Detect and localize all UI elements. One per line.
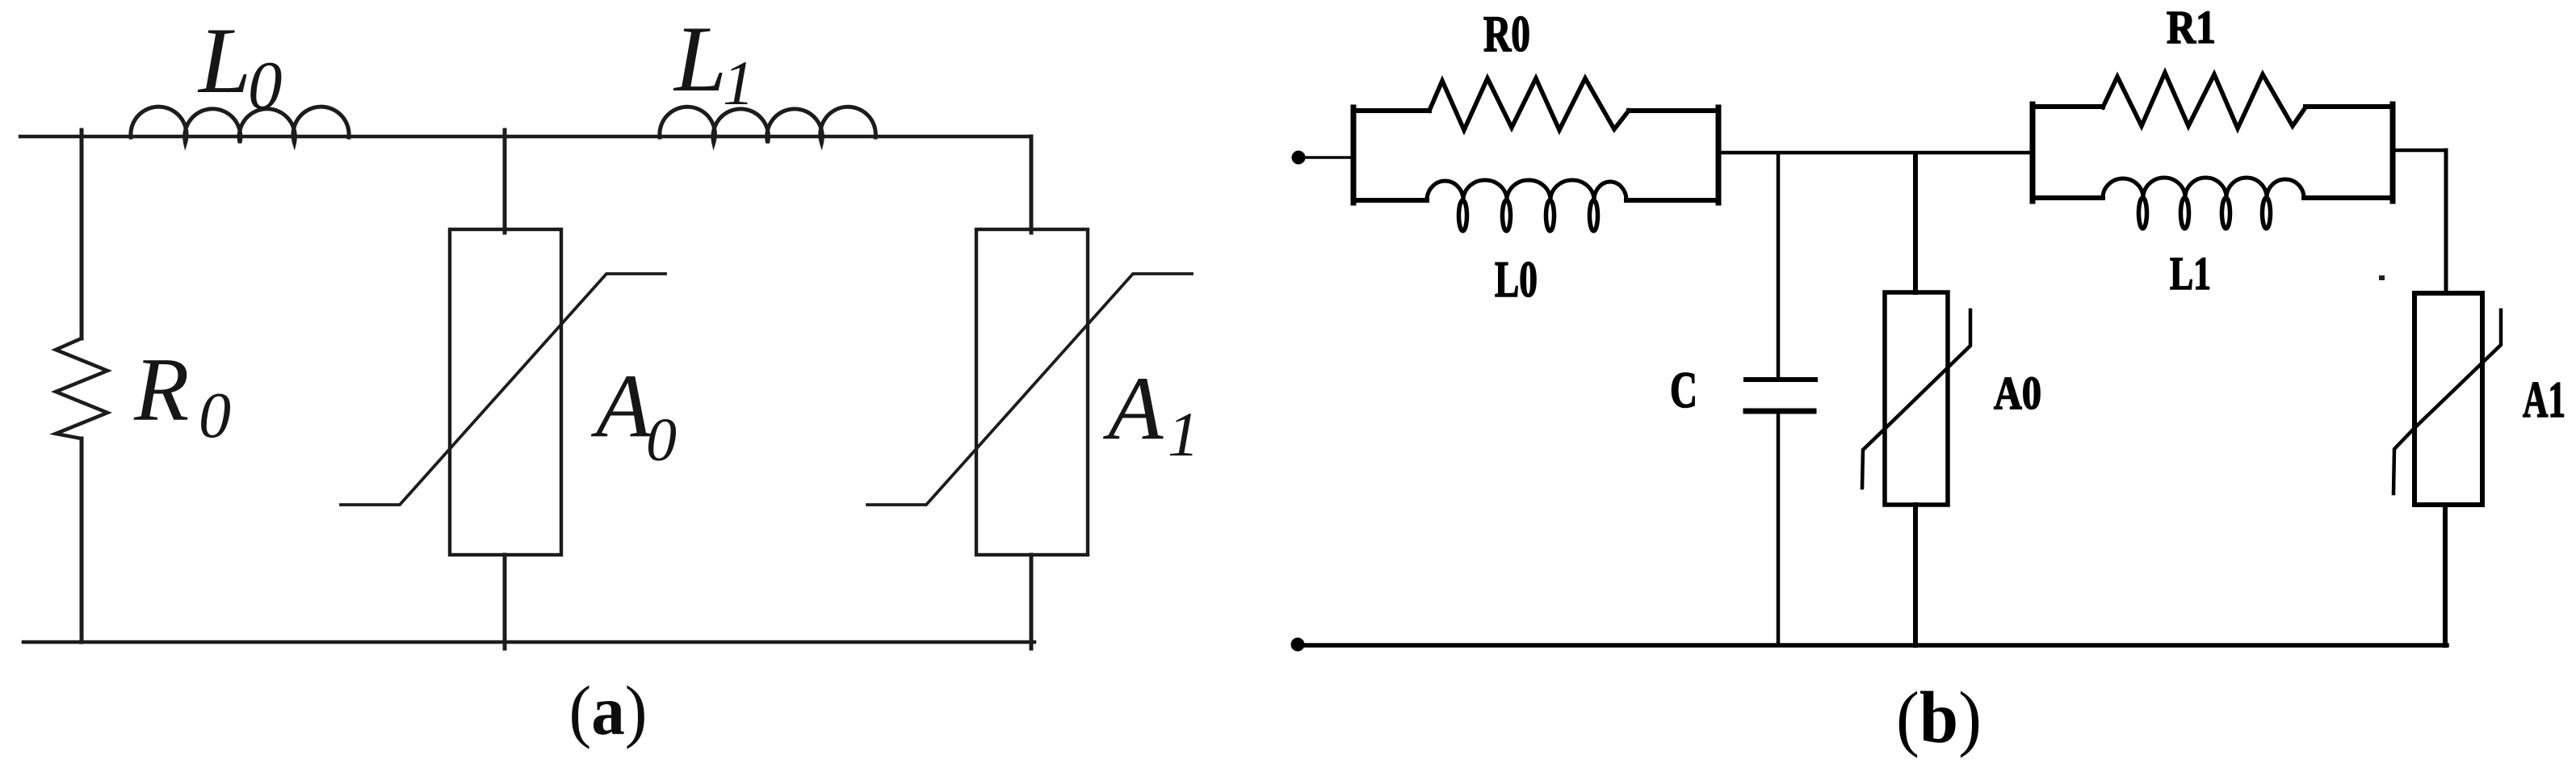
svg-text:A0: A0 — [1994, 367, 2041, 419]
label L1 (a) — [673, 7, 754, 118]
wire top rail (a) — [20, 135, 1031, 138]
svg-text:1: 1 — [723, 48, 754, 118]
svg-text:0: 0 — [248, 48, 283, 124]
varistor A0 body (b) — [1885, 292, 1948, 505]
wire node A horizontal (b) — [1721, 151, 2033, 155]
wire varistor A1 top lead (b) — [2444, 150, 2448, 293]
wire input lead (b) — [1298, 156, 1353, 159]
svg-text:L: L — [197, 9, 251, 113]
svg-text:L0: L0 — [1495, 250, 1538, 308]
svg-text:A1: A1 — [2523, 371, 2566, 428]
R1 L1 parallel block right edge (b) — [2390, 104, 2396, 201]
svg-text:L: L — [673, 7, 727, 111]
label R0 (a) — [133, 340, 231, 451]
varistor A1 body (b) — [2414, 293, 2482, 505]
svg-text:0: 0 — [646, 406, 677, 474]
varistor A0 diagonal stroke (b) — [1862, 310, 1970, 488]
wire varistor A1 bottom lead (b) — [2443, 505, 2448, 645]
R0 L0 parallel block left edge (b) — [1351, 107, 1357, 203]
svg-text:C: C — [1670, 362, 1697, 418]
wire left branch vertical (a) — [80, 130, 84, 642]
svg-text:R1: R1 — [2167, 1, 2216, 53]
wire capacitor C bottom lead (b) — [1777, 414, 1781, 645]
inductor L1 coil loops (b) — [2139, 198, 2271, 229]
resistor R0 (a) — [56, 338, 107, 439]
R1 L1 parallel block left edge (b) — [2030, 104, 2036, 201]
svg-text:1: 1 — [1168, 399, 1199, 469]
varistor A1 diagonal stroke (b) — [2393, 310, 2501, 493]
resistor R0 zigzag (b) — [1429, 78, 1629, 130]
inductor L1 (a) — [660, 107, 876, 143]
label L0 (a) — [197, 9, 283, 124]
varistor A1 diagonal stroke (a) — [867, 274, 1192, 505]
label A0 (a) — [590, 356, 677, 474]
R1 L1 parallel block bottom rail (b) — [2033, 195, 2393, 200]
inductor L0 coil loops (b) — [1459, 200, 1598, 231]
svg-text:A: A — [1102, 359, 1164, 459]
wire varistor A0 bottom lead (a) — [503, 555, 507, 649]
svg-text:(a): (a) — [569, 671, 648, 749]
wire varistor A0 top lead (b) — [1913, 153, 1918, 292]
node input terminal dot (b) — [1292, 151, 1305, 164]
capacitor C bottom plate (b) — [1746, 409, 1814, 414]
R1 L1 parallel block top rail (b) — [2033, 104, 2393, 109]
varistor A1 body (a) — [976, 229, 1088, 555]
wire varistor A1 top lead (a) — [1030, 136, 1034, 233]
wire varistor A0 bottom lead (b) — [1913, 505, 1918, 645]
svg-text:R0: R0 — [1483, 5, 1530, 62]
R0 L0 parallel block right edge (b) — [1716, 107, 1722, 203]
inductor L0 coil arcs (b) — [1427, 180, 1626, 200]
varistor A0 diagonal stroke (a) — [341, 274, 665, 505]
svg-text:(b): (b) — [1896, 677, 1982, 758]
inductor L0 (a) — [131, 107, 349, 143]
resistor R1 zigzag (b) — [2103, 73, 2305, 128]
svg-text:0: 0 — [199, 380, 231, 451]
wire bottom rail (b) — [1298, 643, 2447, 648]
label A1 (a) — [1102, 359, 1199, 469]
node bottom-left terminal dot (b) — [1291, 638, 1304, 651]
inductor L1 coil arcs (b) — [2103, 178, 2304, 198]
R0 L0 parallel block bottom rail (b) — [1353, 198, 1718, 203]
capacitor C top plate (b) — [1746, 377, 1815, 382]
wire varistor A1 bottom lead (a) — [1030, 555, 1034, 649]
wire bottom rail (a) — [23, 640, 1034, 644]
scan speck artifact (b) — [2379, 275, 2385, 280]
svg-text:A: A — [590, 356, 652, 456]
wire varistor A0 top lead (a) — [503, 130, 507, 233]
R0 L0 parallel block top rail (b) — [1353, 108, 1718, 113]
svg-text:R: R — [133, 340, 189, 440]
wire node B horizontal (b) — [2393, 149, 2446, 153]
varistor A0 body (a) — [450, 229, 561, 555]
svg-text:L1: L1 — [2170, 247, 2211, 300]
wire capacitor C top lead (b) — [1777, 153, 1781, 377]
